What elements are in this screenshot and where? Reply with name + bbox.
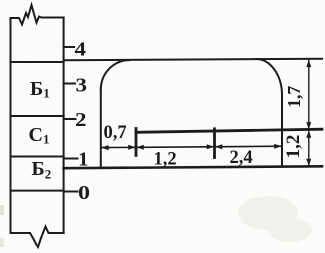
svg-text:1,7: 1,7: [284, 86, 304, 108]
svg-text:2: 2: [75, 109, 87, 131]
svg-text:3: 3: [76, 74, 88, 96]
svg-text:2,4: 2,4: [230, 148, 253, 168]
svg-text:1: 1: [78, 149, 89, 171]
svg-text:1,2: 1,2: [154, 150, 177, 170]
svg-text:4: 4: [75, 38, 87, 60]
svg-text:0,7: 0,7: [104, 123, 127, 143]
svg-text:0: 0: [78, 182, 90, 204]
svg-text:1,2: 1,2: [283, 135, 304, 159]
